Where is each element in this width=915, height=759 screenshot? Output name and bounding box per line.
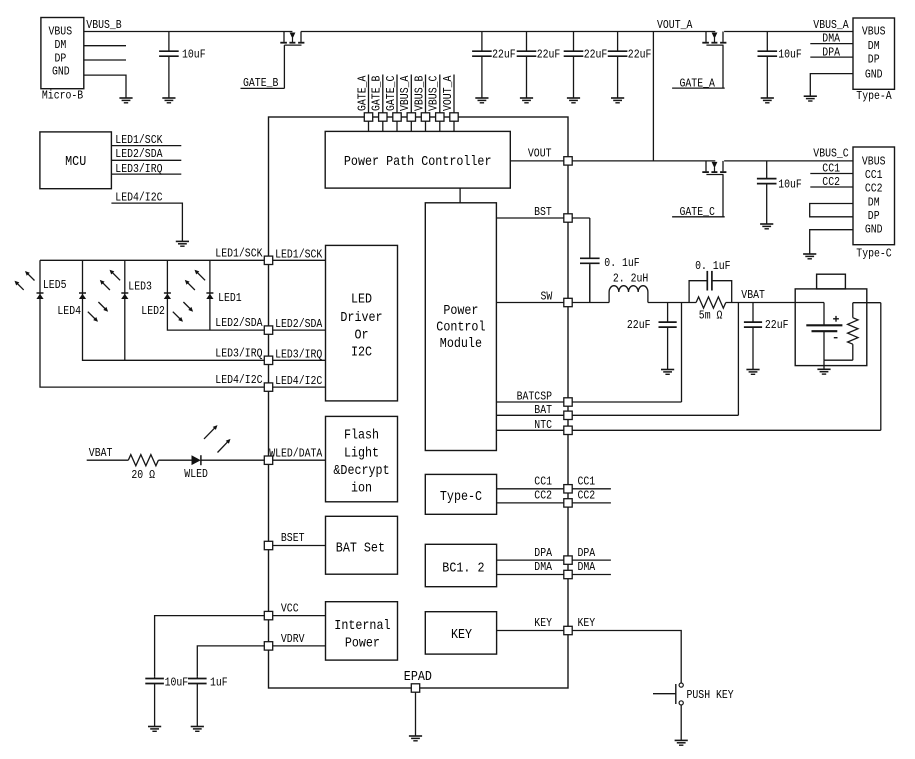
- svg-text:VBUS: VBUS: [49, 25, 73, 39]
- svg-text:DPA: DPA: [822, 45, 840, 59]
- wire CC2: [497, 502, 564, 504]
- wire DPA stub: [810, 56, 853, 58]
- svg-text:LED: LED: [351, 293, 372, 308]
- pin GATE_C: [393, 113, 401, 121]
- ground C1: [162, 98, 175, 103]
- pin CC2: [564, 499, 572, 507]
- svg-text:LED1/SCK: LED1/SCK: [275, 247, 323, 261]
- pin BST: [564, 214, 572, 222]
- pin NTC: [564, 426, 572, 434]
- wire KEY out: [572, 631, 681, 683]
- wire VCC: [273, 615, 326, 617]
- svg-text:VBAT: VBAT: [89, 446, 113, 460]
- pin BATCSP: [564, 398, 572, 406]
- net label DPA: [822, 45, 840, 59]
- wire DMA stub: [572, 574, 611, 576]
- net label DMA: [822, 32, 840, 46]
- wire Type-A GND: [810, 74, 853, 97]
- wire LED2/SDA inner: [273, 329, 326, 331]
- wire VBUS_B rail: [84, 31, 293, 33]
- wire top pin GATE_C: [396, 75, 398, 132]
- diode LED1: [206, 293, 213, 299]
- net label VCC: [281, 602, 299, 616]
- wire DPA: [497, 559, 564, 561]
- capacitor C10 0.1uF: [707, 271, 712, 291]
- net label GATE_B: [241, 76, 285, 90]
- wire battery ground stem: [823, 360, 825, 369]
- block U5 KEY: [425, 612, 496, 654]
- svg-text:10uF: 10uF: [165, 675, 189, 689]
- net label VBAT: [741, 288, 765, 302]
- label R3 20ohm: [131, 468, 155, 482]
- svg-text:LED4/I2C: LED4/I2C: [115, 190, 162, 204]
- svg-text:BAT: BAT: [534, 403, 552, 417]
- wire VDRV: [273, 645, 326, 647]
- pin LED1/SCK: [264, 256, 272, 264]
- wire BST: [496, 217, 563, 219]
- svg-text:DPA: DPA: [534, 546, 552, 560]
- svg-text:EPAD: EPAD: [404, 670, 432, 685]
- wire DMA stub: [810, 43, 853, 45]
- label C6 10uF: [778, 48, 802, 62]
- svg-text:DP: DP: [868, 209, 880, 223]
- svg-text:0. 1uF: 0. 1uF: [695, 259, 730, 273]
- block U9 Internal Power: [326, 602, 398, 660]
- wire after L1: [648, 302, 696, 304]
- capacitor 22uF #1: [472, 32, 492, 99]
- svg-text:VDRV: VDRV: [281, 632, 305, 646]
- ground Micro-B: [119, 98, 132, 103]
- svg-text:Module: Module: [440, 337, 482, 352]
- label C9 22uF: [627, 318, 651, 332]
- net label LED3/IRQ out: [215, 346, 262, 360]
- svg-text:CC2: CC2: [822, 175, 840, 189]
- net label VBUS_B: [86, 18, 121, 32]
- label LED3: [128, 280, 152, 294]
- net label MCU LED1/SCK: [115, 133, 163, 147]
- net label MCU LED2/SDA: [115, 147, 163, 161]
- svg-text:10uF: 10uF: [182, 48, 206, 62]
- pin VBUS_A: [407, 113, 415, 121]
- net label LED1/SCK in: [275, 247, 323, 261]
- svg-text:Driver: Driver: [340, 311, 382, 326]
- pin VOUT_A: [450, 113, 458, 121]
- capacitor 22uF #4: [608, 32, 628, 99]
- svg-text:Micro-B: Micro-B: [42, 89, 83, 103]
- svg-text:22uF: 22uF: [765, 318, 789, 332]
- wire VOUT: [510, 160, 564, 162]
- net label CC1 in: [534, 475, 552, 489]
- capacitor C11 22uF: [744, 303, 762, 370]
- label R1 5mOhm: [699, 309, 723, 323]
- svg-text:LED5: LED5: [43, 278, 67, 292]
- svg-text:LED4: LED4: [57, 304, 81, 318]
- net label LED4/I2C out: [215, 373, 262, 387]
- ground Type-C: [803, 254, 816, 259]
- svg-text:DMA: DMA: [534, 560, 552, 574]
- ground 22uF #3: [567, 98, 580, 103]
- wire LED4/I2C net: [40, 260, 264, 387]
- resistor R1 5mOhm: [696, 297, 726, 308]
- capacitor C8 0.1uF BST: [580, 258, 600, 302]
- battery cell BT1: [806, 303, 842, 361]
- svg-text:VOUT_A: VOUT_A: [657, 18, 693, 32]
- svg-text:LED3/IRQ: LED3/IRQ: [115, 162, 162, 176]
- label 22uF #1: [492, 48, 516, 62]
- diode D1 WLED: [192, 455, 201, 465]
- svg-text:KEY: KEY: [534, 616, 552, 630]
- net label VOUT_A: [657, 18, 693, 32]
- wire CC2 stub Type-C: [810, 186, 853, 188]
- wire LED2/SDA net: [167, 260, 264, 330]
- net label VBUS_C: [813, 147, 848, 161]
- ground 22uF #1: [475, 98, 488, 103]
- resistor R3 20ohm: [128, 455, 158, 466]
- net label VBUS_A vertical: [398, 75, 412, 111]
- transistor Q2 PMOS GATE_A: [702, 32, 726, 89]
- resistor R2 NTC internal: [848, 303, 858, 361]
- svg-text:I2C: I2C: [351, 346, 372, 361]
- pin LED3/IRQ: [264, 356, 272, 364]
- transistor Q3 PMOS GATE_C: [702, 161, 726, 217]
- battery tab: [817, 274, 846, 289]
- net label LED1/SCK out: [215, 246, 263, 260]
- net label SW: [541, 290, 553, 304]
- wire VBAT to R3: [87, 459, 129, 461]
- wire CC1 stub Type-C: [810, 173, 853, 175]
- svg-text:DM: DM: [868, 39, 880, 53]
- battery minus sign: [834, 337, 838, 339]
- svg-text:Internal: Internal: [334, 619, 390, 634]
- wire DMA: [497, 574, 564, 576]
- pin VDRV: [264, 642, 272, 650]
- wire push key ground: [680, 705, 682, 740]
- svg-text:LED3: LED3: [128, 280, 152, 294]
- svg-text:DP: DP: [55, 51, 67, 65]
- diode LED5: [36, 293, 43, 299]
- IC main chip outline: [269, 117, 569, 688]
- wire MCU LED4/I2C: [111, 203, 182, 241]
- svg-text:0. 1uF: 0. 1uF: [604, 256, 639, 270]
- svg-text:KEY: KEY: [578, 616, 596, 630]
- label 22uF #4: [628, 48, 652, 62]
- wire VDRV cap: [197, 646, 264, 676]
- label C10 0.1uF: [695, 259, 730, 273]
- net label VOUT_A vertical: [441, 75, 455, 111]
- wire BAT tap: [737, 303, 739, 416]
- svg-text:BATCSP: BATCSP: [517, 390, 552, 404]
- wire VOUT Type-C right: [724, 160, 853, 162]
- svg-text:LED2: LED2: [141, 304, 165, 318]
- wire top pin GATE_A: [368, 75, 370, 132]
- svg-text:WLED: WLED: [184, 467, 208, 481]
- pin VOUT: [564, 157, 572, 165]
- net label CC1 out: [578, 475, 596, 489]
- net label BATCSP: [517, 390, 552, 404]
- svg-text:DP: DP: [868, 53, 880, 67]
- wire top pin VOUT_A: [453, 75, 455, 132]
- label C11 22uF: [765, 318, 789, 332]
- svg-text:22uF: 22uF: [584, 48, 608, 62]
- svg-text:Type-A: Type-A: [856, 89, 892, 103]
- svg-text:Power: Power: [345, 637, 380, 652]
- svg-text:VBUS_A: VBUS_A: [813, 18, 849, 32]
- label PUSH KEY: [687, 688, 734, 702]
- switch S1 push key: [653, 683, 683, 705]
- wire SW: [496, 302, 563, 304]
- pin DMA: [564, 570, 572, 578]
- svg-text:GND: GND: [865, 223, 883, 237]
- net label CC2 in: [534, 489, 552, 503]
- svg-text:NTC: NTC: [534, 418, 552, 432]
- label WLED: [184, 467, 208, 481]
- pin LED4/I2C: [264, 383, 272, 391]
- svg-text:22uF: 22uF: [492, 48, 516, 62]
- net label GATE_A: [672, 77, 725, 91]
- net label GATE_A vertical: [355, 75, 369, 111]
- wire MCU LED1/SCK: [111, 145, 181, 147]
- wire LED1 branch: [209, 260, 211, 330]
- svg-text:LED4/I2C: LED4/I2C: [215, 373, 262, 387]
- capacitor 22uF #3: [564, 32, 584, 99]
- wire DM-DP short: [810, 204, 853, 217]
- ground EPAD: [409, 736, 422, 741]
- svg-text:Flash: Flash: [344, 429, 379, 444]
- svg-text:SW: SW: [541, 290, 553, 304]
- svg-text:Or: Or: [354, 329, 368, 344]
- block U1 Power Path Controller: [325, 131, 510, 188]
- block U4 BC1.2: [425, 544, 496, 586]
- net label VBUS_B vertical: [412, 76, 426, 111]
- net label BSET: [281, 531, 305, 545]
- pin CC1: [564, 485, 572, 493]
- pin LED2/SDA: [264, 326, 272, 334]
- svg-text:KEY: KEY: [451, 628, 472, 643]
- svg-text:VOUT: VOUT: [528, 147, 552, 161]
- label LED5: [43, 278, 67, 292]
- pin GATE_B: [379, 113, 387, 121]
- label LED4: [57, 304, 81, 318]
- svg-text:BAT Set: BAT Set: [336, 541, 385, 556]
- net label VDRV: [281, 632, 305, 646]
- label C12 10uF: [165, 675, 189, 689]
- net label GATE_B vertical: [370, 76, 384, 111]
- capacitor C1 10uF: [159, 32, 179, 99]
- net label WLED/DATA: [269, 447, 323, 461]
- wire VCC cap: [155, 616, 265, 677]
- net label LED3/IRQ in: [275, 347, 322, 361]
- wire D1 to pin: [201, 459, 264, 461]
- wire LED1/SCK net: [40, 259, 264, 261]
- net label CC2 out: [578, 489, 596, 503]
- svg-text:GATE_C: GATE_C: [384, 76, 398, 111]
- svg-text:BST: BST: [534, 205, 552, 219]
- svg-text:VCC: VCC: [281, 602, 299, 616]
- wire BSET: [273, 545, 326, 547]
- svg-text:DMA: DMA: [822, 32, 840, 46]
- connector Micro-B: [41, 18, 84, 103]
- svg-text:Type-C: Type-C: [856, 247, 891, 261]
- net label GATE_C vertical: [384, 76, 398, 111]
- wire NTC: [496, 429, 563, 431]
- label C1 10uF: [182, 48, 206, 62]
- svg-text:BSET: BSET: [281, 531, 305, 545]
- wire MCU LED2/SDA: [111, 159, 181, 161]
- svg-text:GND: GND: [865, 68, 883, 82]
- pin WLED/DATA: [264, 456, 272, 464]
- wire BAT: [496, 414, 563, 416]
- wire top pin GATE_B: [382, 75, 384, 132]
- svg-text:10uF: 10uF: [778, 48, 802, 62]
- ground C12: [148, 727, 161, 732]
- svg-text:Power: Power: [443, 304, 478, 319]
- wire CC1: [497, 488, 564, 490]
- svg-text:22uF: 22uF: [627, 318, 651, 332]
- wire SW out: [572, 302, 609, 304]
- ground C9: [661, 370, 674, 375]
- pin VBUS_C: [436, 113, 444, 121]
- svg-text:DPA: DPA: [578, 546, 596, 560]
- svg-text:VBAT: VBAT: [741, 288, 765, 302]
- svg-text:VBUS: VBUS: [862, 154, 886, 168]
- arrows LED3: [100, 270, 120, 290]
- wire BST branch: [572, 218, 590, 258]
- diode LED2: [164, 293, 171, 299]
- capacitor C13 1uF: [188, 676, 207, 726]
- net label LED4/I2C in: [275, 374, 322, 388]
- wire NTC out: [572, 429, 881, 431]
- svg-text:VBUS_B: VBUS_B: [86, 18, 121, 32]
- svg-text:5m Ω: 5m Ω: [699, 309, 723, 323]
- svg-text:LED4/I2C: LED4/I2C: [275, 374, 322, 388]
- wire BATCSP sense: [681, 303, 683, 403]
- svg-text:LED1/SCK: LED1/SCK: [215, 246, 263, 260]
- net label NTC: [534, 418, 552, 432]
- ground MCU LED4/I2C: [176, 241, 189, 246]
- wire LED3/IRQ inner: [273, 359, 326, 361]
- svg-text:CC2: CC2: [578, 489, 596, 503]
- arrows LED5: [15, 271, 35, 290]
- capacitor 22uF #2: [517, 32, 537, 99]
- net label VOUT: [528, 147, 552, 161]
- wire LED4/I2C inner: [273, 386, 326, 388]
- wire top pin VBUS_B: [425, 75, 427, 132]
- svg-text:VOUT_A: VOUT_A: [441, 75, 455, 111]
- svg-text:ion: ion: [351, 482, 372, 497]
- wire BATCSP out: [572, 401, 681, 403]
- svg-text:VBUS_B: VBUS_B: [412, 76, 426, 111]
- svg-text:BC1. 2: BC1. 2: [442, 562, 484, 577]
- inductor L1 2.2uH: [609, 286, 648, 303]
- net label KEY out: [578, 616, 596, 630]
- wire U1 to U2: [459, 188, 461, 203]
- ground C13: [191, 727, 204, 732]
- svg-text:20 Ω: 20 Ω: [131, 468, 155, 482]
- net label VBUS_A: [813, 18, 849, 32]
- svg-text:CC1: CC1: [865, 168, 883, 182]
- wire KEY: [497, 630, 564, 632]
- pin SW: [564, 298, 572, 306]
- net label KEY in: [534, 616, 552, 630]
- svg-text:DMA: DMA: [578, 560, 596, 574]
- net label DMA out: [578, 560, 596, 574]
- pin VCC: [264, 611, 272, 619]
- arrows LED1: [185, 270, 205, 290]
- svg-text:VBUS_A: VBUS_A: [398, 75, 412, 111]
- net label VBUS_C vertical: [427, 76, 441, 111]
- svg-text:GATE_A: GATE_A: [355, 75, 369, 111]
- diode LED3: [121, 293, 128, 299]
- net label LED2/SDA in: [275, 317, 323, 331]
- svg-text:LED1/SCK: LED1/SCK: [115, 133, 163, 147]
- wire VOUT_A tee: [652, 32, 654, 161]
- wire BATCSP: [496, 401, 563, 403]
- pin GATE_A: [364, 113, 372, 121]
- battery plus sign: [833, 316, 839, 322]
- wire top pin VBUS_A: [410, 75, 412, 132]
- svg-text:VBUS_C: VBUS_C: [813, 147, 848, 161]
- arrows LED4: [88, 302, 108, 322]
- wire Micro-B DM stub: [84, 45, 126, 47]
- wire rail right: [724, 31, 853, 33]
- wire Type-C GND: [810, 230, 853, 254]
- svg-text:22uF: 22uF: [628, 48, 652, 62]
- ground C11: [746, 370, 759, 375]
- svg-text:DM: DM: [868, 195, 880, 209]
- wire NTC top: [853, 302, 881, 304]
- wire CC1 stub: [572, 488, 611, 490]
- label C13 1uF: [210, 675, 228, 689]
- block U2 Power Control Module: [425, 203, 496, 451]
- arrows WLED: [204, 425, 231, 452]
- capacitor C7 10uF Type-C: [757, 161, 777, 224]
- pin BSET: [264, 541, 272, 549]
- svg-text:LED1: LED1: [218, 291, 242, 305]
- svg-text:1uF: 1uF: [210, 675, 228, 689]
- svg-text:LED3/IRQ: LED3/IRQ: [275, 347, 322, 361]
- wire EPAD ground: [415, 692, 417, 736]
- block U10 MCU: [40, 132, 112, 189]
- wire DPA stub: [572, 559, 611, 561]
- svg-text:Control: Control: [436, 320, 485, 335]
- block U8 BAT Set: [326, 516, 398, 574]
- wire battery bottom: [824, 359, 853, 361]
- wire Micro-B DP stub: [84, 59, 126, 61]
- svg-text:LED2/SDA: LED2/SDA: [215, 316, 263, 330]
- svg-text:PUSH KEY: PUSH KEY: [687, 688, 734, 702]
- svg-text:CC2: CC2: [534, 489, 552, 503]
- net label DMA in: [534, 560, 552, 574]
- transistor Q1 PMOS GATE_B: [280, 32, 304, 89]
- battery pack outline: [795, 289, 867, 366]
- svg-text:GND: GND: [52, 65, 70, 79]
- ground 22uF #2: [520, 98, 533, 103]
- ground C7: [760, 224, 773, 229]
- net label LED2/SDA out: [215, 316, 263, 330]
- svg-text:LED2/SDA: LED2/SDA: [115, 147, 163, 161]
- svg-text:Light: Light: [344, 447, 379, 462]
- svg-text:MCU: MCU: [65, 155, 86, 170]
- net label DPA in: [534, 546, 552, 560]
- svg-text:VBUS_C: VBUS_C: [427, 76, 441, 111]
- net label MCU LED3/IRQ: [115, 162, 162, 176]
- svg-text:CC2: CC2: [865, 182, 883, 196]
- svg-text:WLED/DATA: WLED/DATA: [269, 447, 323, 461]
- ground Type-A: [804, 96, 817, 101]
- net label MCU LED4/I2C: [115, 190, 162, 204]
- svg-text:GATE_B: GATE_B: [370, 76, 384, 111]
- svg-text:DM: DM: [55, 38, 67, 52]
